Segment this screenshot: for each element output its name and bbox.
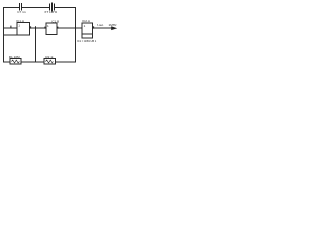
svg-text:IC1.B: IC1.B — [51, 19, 59, 23]
svg-text:R2 1k: R2 1k — [45, 55, 54, 59]
svg-text:f.out.: f.out. — [97, 23, 104, 27]
svg-text:XT 1MHz: XT 1MHz — [44, 10, 57, 14]
svg-text:1MHz: 1MHz — [109, 23, 118, 27]
svg-text:R1 10M: R1 10M — [9, 55, 20, 59]
svg-text:IC2.A: IC2.A — [82, 19, 91, 23]
svg-text:C7 1n: C7 1n — [17, 10, 26, 14]
svg-text:IC1.A: IC1.A — [16, 19, 25, 23]
svg-text:IC1 = 4069 UB 1: IC1 = 4069 UB 1 — [77, 39, 97, 43]
